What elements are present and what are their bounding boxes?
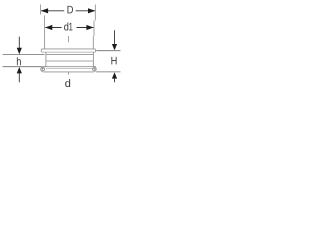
bottom lip right curl: [93, 68, 95, 70]
lip inner line: [46, 68, 93, 70]
centerline bottom dash: [68, 72, 70, 75]
collar ring side left: [40, 50, 42, 52]
pipe wall right: [92, 36, 94, 49]
label h: [17, 57, 21, 65]
collar rib line 2: [46, 60, 94, 62]
label d1 (glyph d): [64, 22, 68, 30]
dimension H line top tail: [114, 30, 116, 44]
dimension h line top tail: [18, 37, 20, 49]
bottom edge: [44, 71, 93, 73]
dimension H extension line top: [96, 50, 120, 52]
dimension H line bottom tail: [114, 78, 116, 82]
collar rib line 1: [46, 54, 94, 56]
pipe wall left (gray outline, sleeve upper section): [44, 36, 46, 49]
dimension H arrow up: [112, 72, 117, 78]
centerline top dash: [68, 36, 70, 42]
label H: [111, 57, 116, 65]
collar ring bottom line: [41, 51, 95, 53]
dimension D extension line right: [94, 5, 96, 21]
dimension h arrow up: [17, 67, 22, 73]
dimension D arrow left: [41, 8, 48, 13]
dimension D line right segment: [76, 10, 95, 12]
dimension H arrow down: [112, 44, 117, 50]
bottom lip left (rolled bead): [41, 67, 46, 72]
bottom lip right (rolled bead): [93, 67, 96, 72]
dimension d1 arrow right: [86, 25, 93, 30]
dimension D extension line left: [39, 5, 41, 15]
dimension d1 extension line right: [93, 21, 95, 37]
dimension h arrow down: [17, 48, 22, 54]
label d: [65, 79, 70, 87]
lip top line: [41, 66, 96, 68]
dimension d1 arrow left: [45, 25, 52, 30]
dimension H extension line bottom: [96, 71, 120, 73]
dimension h line bottom tail: [18, 73, 20, 82]
collar top edge: [41, 48, 95, 51]
collar ring side right: [95, 50, 97, 52]
dimension D arrow right: [88, 8, 95, 13]
dimension D line left segment: [41, 10, 64, 12]
label D: [67, 6, 72, 14]
bottom lip left curl: [42, 68, 44, 70]
dimension d1 line right segment: [77, 27, 94, 29]
collar body right edge: [92, 52, 94, 67]
dimension d1 line left segment: [45, 27, 61, 29]
dimension d1 extension line left: [44, 16, 46, 37]
label d1 (glyph 1): [69, 23, 72, 31]
dimension h extension line top: [3, 53, 45, 55]
dimension h extension line bottom: [3, 66, 42, 68]
collar body left edge: [45, 52, 47, 67]
